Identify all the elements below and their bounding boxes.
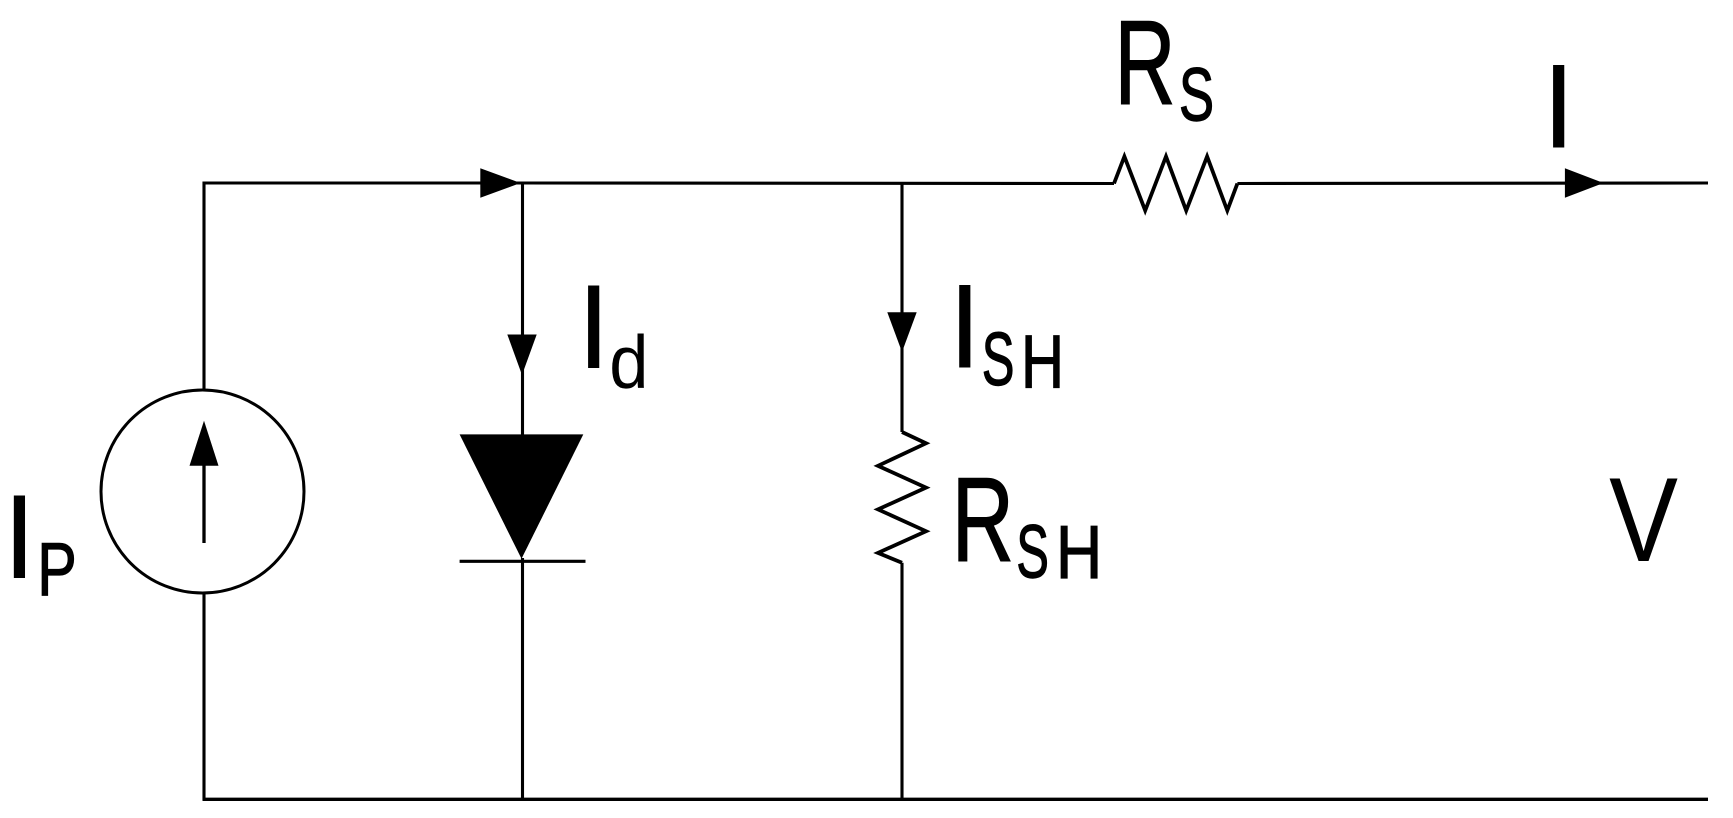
wire left vertical lower (source to bottom bus) [202,592,205,800]
resistor RSH zigzag [878,432,926,563]
current arrow I (output, pointing right) [1565,168,1604,198]
wire bottom bus [203,798,1709,801]
current source IP (circle) [101,390,304,593]
label I output current [1542,40,1575,174]
label Id subscript d [609,321,648,404]
label Id letter I [577,260,610,394]
svg-text:I: I [577,260,610,394]
label IP letter I [3,470,36,604]
label ISH letter I [948,260,981,394]
label RSH letter R [952,452,1014,586]
current arrow Id (diode branch, pointing down) [507,335,536,376]
current arrow into node (top bus, pointing right) [480,168,520,197]
wire top bus left segment (node A to diode junction) [203,181,523,184]
svg-text:d: d [609,321,648,404]
wire shunt branch lower [900,563,903,800]
label ISH subscript S [982,319,1015,402]
current source arrow shaft [202,462,205,543]
label RS letter R [1115,0,1176,129]
wire top bus middle segment (diode junction to RS) [523,181,1115,185]
resistor RS zigzag [1114,157,1237,211]
label ISH subscript H [1021,321,1064,404]
wire shunt branch upper [900,183,903,432]
svg-text:S: S [1179,52,1214,137]
wire diode branch lower [521,558,524,800]
svg-text:R: R [952,452,1014,586]
svg-text:H: H [1021,321,1064,404]
svg-text:S: S [982,319,1015,402]
diode D anode triangle [460,434,584,558]
label RSH subscript H [1056,510,1102,594]
svg-text:I: I [3,470,36,604]
svg-text:R: R [1115,0,1176,129]
svg-text:I: I [948,260,981,394]
svg-text:S: S [1016,511,1049,594]
label V output voltage [1609,453,1678,587]
current source arrowhead [190,421,219,466]
label RSH subscript S [1016,511,1049,594]
svg-text:V: V [1609,453,1678,587]
wire left vertical upper (source to top bus) [202,182,205,392]
svg-text:I: I [1542,40,1575,174]
label RS subscript S [1179,52,1214,137]
svg-text:H: H [1056,510,1102,594]
label IP subscript P [37,528,77,611]
wire diode branch upper [521,183,524,436]
wire top bus right segment (RS to output terminal) [1237,181,1708,185]
current arrow ISH (shunt branch, pointing down) [887,312,916,352]
diode D cathode bar [460,560,586,563]
svg-text:P: P [37,528,77,611]
